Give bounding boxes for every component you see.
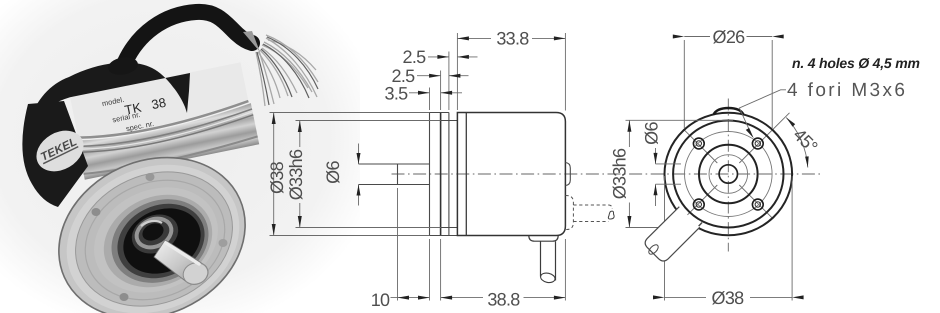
svg-text:4 fori M3x6: 4 fori M3x6 [787,80,907,101]
svg-text:38.8: 38.8 [487,290,520,310]
svg-text:10: 10 [371,290,390,310]
svg-text:Ø38: Ø38 [712,288,745,308]
svg-text:Ø6: Ø6 [642,122,662,145]
svg-text:Ø33h6: Ø33h6 [286,149,306,200]
svg-text:3.5: 3.5 [385,84,409,104]
svg-text:n. 4 holes Ø 4,5 mm: n. 4 holes Ø 4,5 mm [792,55,920,71]
svg-text:Ø33h6: Ø33h6 [610,148,630,199]
svg-text:Ø38: Ø38 [267,161,287,194]
svg-text:Ø6: Ø6 [323,161,343,184]
svg-text:2.5: 2.5 [403,47,427,67]
svg-text:45°: 45° [789,125,821,157]
svg-text:Ø26: Ø26 [713,27,746,47]
svg-text:33.8: 33.8 [496,29,529,49]
